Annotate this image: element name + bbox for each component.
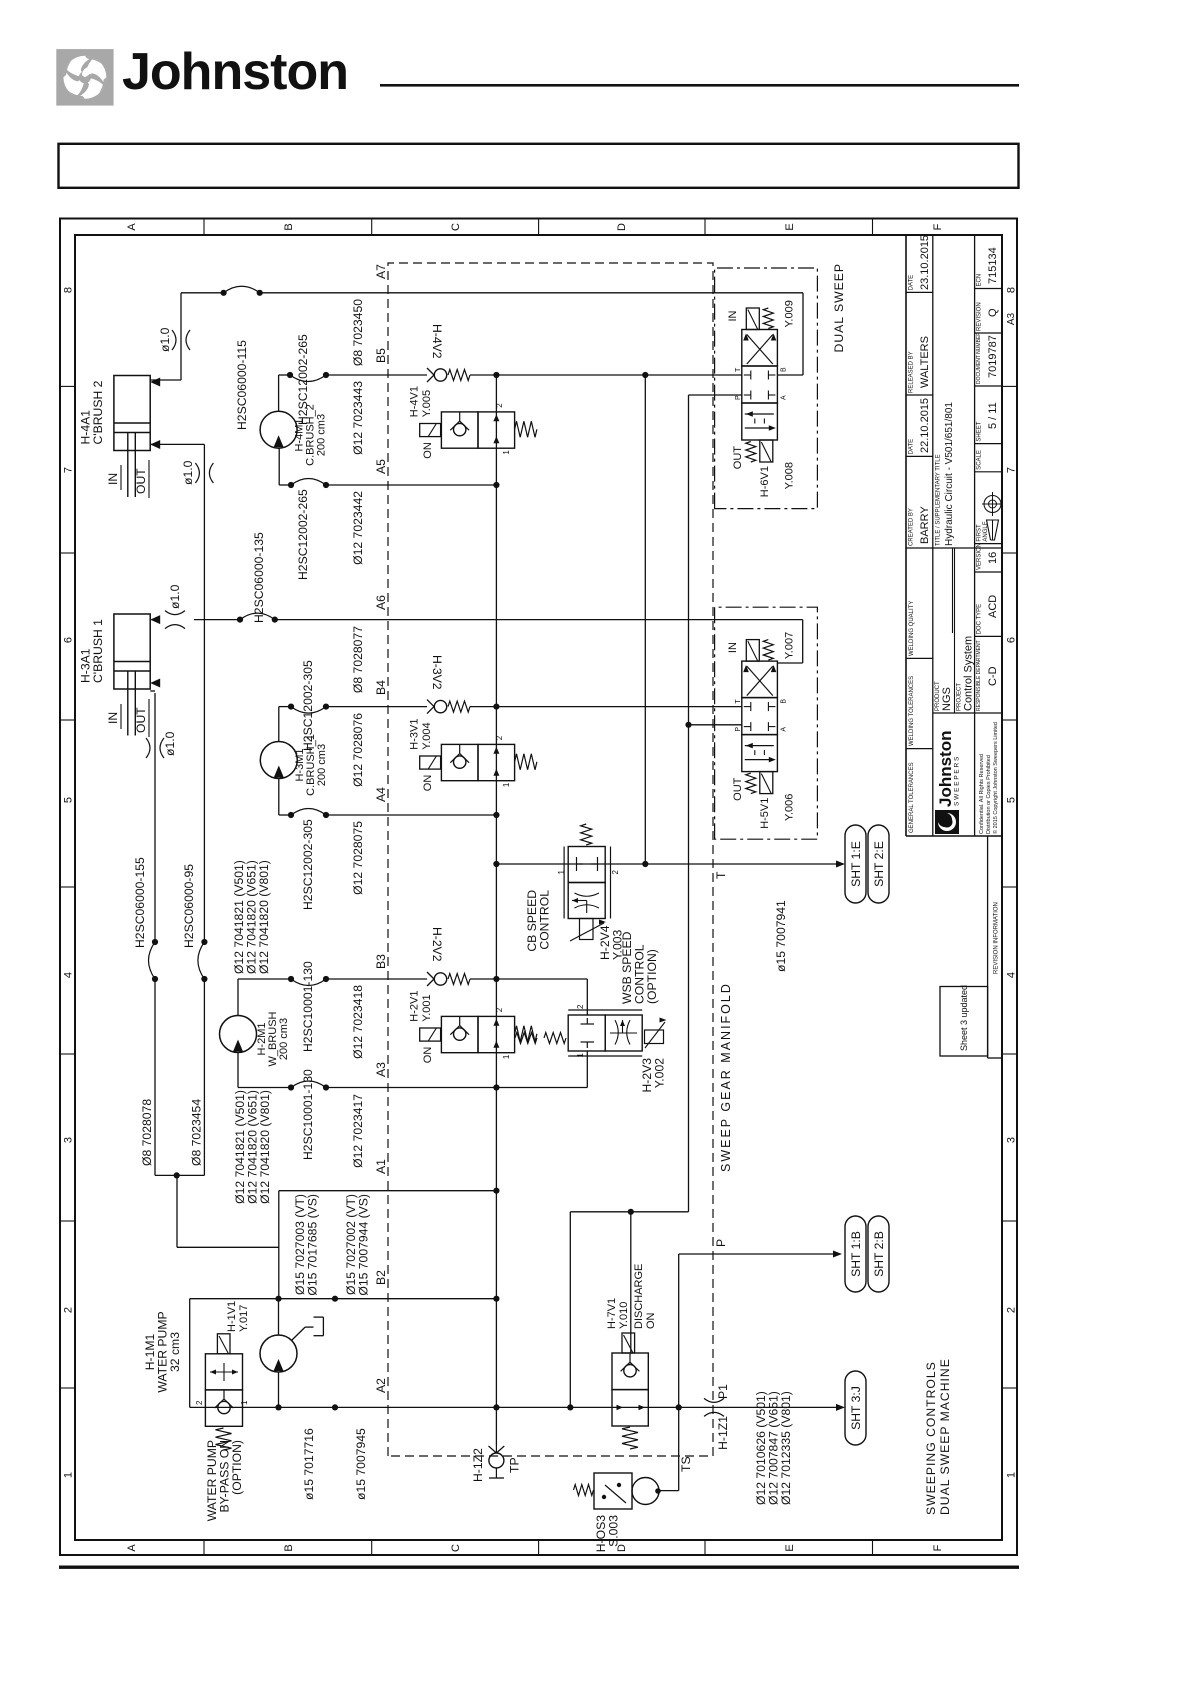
svg-text:Ø8 7028078: Ø8 7028078 bbox=[140, 1099, 154, 1166]
svg-text:DATE: DATE bbox=[909, 439, 915, 455]
svg-text:Ø12 7041820 (V801): Ø12 7041820 (V801) bbox=[257, 860, 271, 974]
svg-text:H-1Z1: H-1Z1 bbox=[716, 1416, 730, 1450]
wire P drop to SHT 1:B bbox=[679, 1253, 835, 1255]
wire A7 rail bbox=[181, 292, 224, 294]
svg-text:CONTROL: CONTROL bbox=[538, 890, 552, 950]
wire rod rail upper (H-3A1) bbox=[154, 979, 156, 1175]
svg-text:H-3V2: H-3V2 bbox=[430, 655, 444, 690]
svg-text:ø15 7007941: ø15 7007941 bbox=[774, 900, 788, 972]
svg-text:C'BRUSH 2: C'BRUSH 2 bbox=[91, 380, 105, 444]
wire H-4M1 ports bbox=[278, 375, 280, 411]
svg-text:B: B bbox=[283, 223, 295, 230]
svg-text:OUT: OUT bbox=[732, 777, 744, 801]
junction dots pump ports and hoses bbox=[275, 1404, 281, 1410]
svg-text:3: 3 bbox=[1006, 1137, 1018, 1143]
svg-text:SHT 3:J: SHT 3:J bbox=[849, 1386, 863, 1430]
svg-text:SHT 1:E: SHT 1:E bbox=[849, 841, 863, 887]
svg-text:REVISION INFORMATION: REVISION INFORMATION bbox=[994, 902, 1000, 974]
first angle projection symbol bbox=[987, 520, 999, 540]
cylinder H-4A1 C'BRUSH 2 bbox=[114, 376, 150, 451]
svg-text:H2SC10001-130: H2SC10001-130 bbox=[301, 961, 315, 1052]
svg-text:H2SC06000-115: H2SC06000-115 bbox=[235, 340, 249, 430]
svg-text:Y.004: Y.004 bbox=[421, 722, 433, 749]
svg-text:Q: Q bbox=[987, 308, 999, 317]
valve H-7V1 discharge bbox=[612, 1390, 648, 1426]
svg-text:TP: TP bbox=[508, 1457, 522, 1473]
svg-text:B: B bbox=[780, 699, 787, 704]
svg-text:A3: A3 bbox=[374, 1062, 388, 1077]
flag SHT 3:J bbox=[845, 1371, 866, 1445]
wire P1 line to SHT 3:J bbox=[679, 1406, 838, 1408]
rotated schematic sheet bbox=[60, 219, 1018, 1556]
svg-text:DUAL SWEEP MACHINE: DUAL SWEEP MACHINE bbox=[938, 1358, 952, 1515]
pump drain line bbox=[292, 1327, 306, 1340]
svg-text:H-3V1: H-3V1 bbox=[409, 719, 421, 750]
spring H-2V2 bbox=[448, 974, 470, 985]
svg-text:Ø8 7023450: Ø8 7023450 bbox=[351, 299, 365, 366]
grid row ticks bbox=[203, 1540, 205, 1555]
svg-text:1: 1 bbox=[63, 1472, 75, 1478]
svg-text:1: 1 bbox=[502, 450, 511, 455]
svg-text:ø1.0: ø1.0 bbox=[163, 731, 177, 756]
svg-text:IN: IN bbox=[727, 310, 739, 321]
svg-text:Y.002: Y.002 bbox=[653, 1058, 667, 1088]
svg-text:5: 5 bbox=[63, 797, 75, 803]
svg-text:Y.009: Y.009 bbox=[783, 300, 795, 327]
svg-text:1: 1 bbox=[240, 1400, 249, 1405]
svg-text:ANGLE: ANGLE bbox=[983, 521, 989, 541]
svg-text:SWEEPING CONTROLS: SWEEPING CONTROLS bbox=[924, 1361, 938, 1515]
svg-text:Y.006: Y.006 bbox=[783, 794, 795, 821]
solenoid H-1V1 bbox=[217, 1334, 230, 1354]
flag SHT 1:B bbox=[845, 1216, 866, 1292]
valve H-2V1 Y.001 bbox=[441, 1016, 478, 1052]
title block outer borders bbox=[905, 235, 907, 836]
wire A6 rail bbox=[152, 619, 157, 621]
svg-text:FIRST: FIRST bbox=[977, 524, 983, 542]
directional valve H-6V1 Y.008/Y.009 bbox=[742, 403, 778, 440]
svg-text:P: P bbox=[714, 1239, 728, 1247]
orifice o1.0 on H-4A1 rod rail bbox=[195, 463, 199, 483]
wire pump ports bbox=[278, 1299, 280, 1335]
dual sweep dash-dot box H-5V1 bbox=[715, 607, 818, 839]
svg-text:P: P bbox=[735, 727, 742, 732]
svg-text:TS: TS bbox=[679, 1456, 693, 1472]
svg-text:S W E E P E R S: S W E E P E R S bbox=[954, 756, 961, 806]
hose break on B4 bbox=[288, 703, 294, 709]
svg-text:H2SC12002-305: H2SC12002-305 bbox=[301, 819, 315, 910]
wire H-3A1 rod port drop bbox=[150, 690, 155, 692]
svg-text:B: B bbox=[780, 367, 787, 372]
header rule bbox=[380, 84, 1019, 87]
svg-text:Hydraulic Circuit - V501/651/8: Hydraulic Circuit - V501/651/801 bbox=[944, 402, 955, 546]
check valve H-3V2 on B4 bbox=[434, 700, 446, 712]
solenoid H-7V1 bbox=[622, 1333, 635, 1353]
svg-text:ACD: ACD bbox=[987, 595, 999, 618]
motor H-3M1 C.BRUSH_1 bbox=[260, 742, 297, 779]
svg-text:H-5V1: H-5V1 bbox=[759, 798, 771, 829]
svg-text:Ø8 7023454: Ø8 7023454 bbox=[190, 1099, 204, 1166]
wire H-3M1 ports bbox=[278, 707, 280, 742]
svg-text:H-6V1: H-6V1 bbox=[759, 466, 771, 497]
svg-text:Johnston: Johnston bbox=[122, 43, 348, 101]
svg-text:4: 4 bbox=[63, 972, 75, 978]
svg-text:ON: ON bbox=[422, 775, 434, 792]
svg-text:WELDING QUALITY: WELDING QUALITY bbox=[909, 601, 915, 656]
drawing frame inner border bbox=[75, 235, 1002, 1540]
wire H-4A1 rod port drop bbox=[150, 443, 204, 445]
sheet 3 updated box bbox=[940, 987, 988, 1057]
wire B5-T link bbox=[644, 375, 646, 864]
svg-text:T: T bbox=[714, 871, 728, 879]
hose break H2SC06000-115 on A7 bbox=[221, 290, 227, 296]
wire H-OS3 to TS line bbox=[659, 1490, 679, 1492]
wire H-4A1 cap port to A7 bbox=[150, 379, 181, 381]
svg-text:S.003: S.003 bbox=[607, 1515, 621, 1547]
title block product project cells bbox=[933, 712, 1002, 714]
tank symbol bbox=[314, 1335, 324, 1337]
wire H-7V1 port to discharge bbox=[630, 1212, 632, 1353]
svg-text:NGS: NGS bbox=[941, 687, 953, 711]
svg-text:ø15 7017716: ø15 7017716 bbox=[302, 1428, 316, 1500]
svg-text:200 cm3: 200 cm3 bbox=[316, 744, 328, 786]
svg-text:Control System: Control System bbox=[963, 636, 975, 711]
svg-text:7: 7 bbox=[1006, 467, 1018, 473]
orifice H-1Z1 bbox=[704, 1412, 724, 1416]
variable restrictor H-2V4 bbox=[580, 919, 594, 940]
svg-text:7019787: 7019787 bbox=[987, 335, 999, 378]
svg-text:Y.010: Y.010 bbox=[618, 1302, 630, 1329]
svg-text:H-4V2: H-4V2 bbox=[430, 324, 444, 359]
svg-text:Sheet 3 updated: Sheet 3 updated bbox=[959, 985, 969, 1051]
svg-text:2: 2 bbox=[63, 1307, 75, 1313]
svg-text:B3: B3 bbox=[374, 954, 388, 969]
svg-text:DOCUMENT NUMBER: DOCUMENT NUMBER bbox=[976, 332, 982, 384]
svg-text:T: T bbox=[735, 367, 742, 372]
svg-text:IN: IN bbox=[727, 642, 739, 653]
svg-text:B2: B2 bbox=[374, 1270, 388, 1285]
wire B5 rail bbox=[279, 374, 290, 376]
svg-text:SWEEP GEAR MANIFOLD: SWEEP GEAR MANIFOLD bbox=[719, 982, 733, 1172]
orifice o1.0 on H-3A1 rod rail bbox=[146, 738, 150, 758]
svg-text:Ø12 7028076: Ø12 7028076 bbox=[351, 713, 365, 787]
wire A6 to H-5V1 B loop bbox=[802, 620, 804, 663]
svg-text:A4: A4 bbox=[374, 787, 388, 802]
dual sweep dash-dot box H-6V1 bbox=[715, 268, 818, 509]
svg-text:Y.017: Y.017 bbox=[238, 1305, 250, 1332]
svg-text:DOC TYPE: DOC TYPE bbox=[977, 604, 983, 635]
valve H-1V1 water pump bypass bbox=[205, 1390, 242, 1426]
svg-text:2: 2 bbox=[576, 1004, 585, 1009]
pump H-1M1 WATER PUMP bbox=[260, 1335, 297, 1372]
wire H-5V1 P stub bbox=[689, 724, 742, 726]
svg-text:H-7V1: H-7V1 bbox=[606, 1298, 618, 1329]
motor H-2M1 W_BRUSH bbox=[220, 1016, 257, 1053]
svg-text:1: 1 bbox=[557, 869, 566, 874]
motor H-4M1 C.BRUSH_2 bbox=[260, 411, 297, 448]
svg-text:2: 2 bbox=[611, 869, 620, 874]
wire B4 rail bbox=[279, 706, 291, 708]
svg-text:5: 5 bbox=[1006, 797, 1018, 803]
svg-text:H2SC10001-130: H2SC10001-130 bbox=[301, 1069, 315, 1160]
svg-text:B4: B4 bbox=[374, 680, 388, 695]
svg-text:OUT: OUT bbox=[134, 707, 148, 733]
svg-text:ON: ON bbox=[422, 442, 434, 459]
svg-text:SHT 1:B: SHT 1:B bbox=[849, 1231, 863, 1277]
svg-text:E: E bbox=[784, 223, 796, 230]
svg-text:H2SC06000-135: H2SC06000-135 bbox=[252, 532, 266, 623]
svg-text:RESPONSIBLE DEPARTMENT: RESPONSIBLE DEPARTMENT bbox=[976, 640, 982, 711]
svg-text:8: 8 bbox=[63, 287, 75, 293]
svg-text:Johnston: Johnston bbox=[936, 731, 955, 808]
svg-text:Ø15 7007944 (VS): Ø15 7007944 (VS) bbox=[357, 1194, 371, 1296]
check valve H-4V2 on B5 bbox=[434, 369, 446, 381]
svg-text:TITLE / SUPPLEMENTARY TITLE: TITLE / SUPPLEMENTARY TITLE bbox=[936, 454, 942, 546]
svg-text:D: D bbox=[616, 223, 628, 231]
spring H-2V3 above bbox=[544, 1033, 566, 1044]
svg-text:ECN: ECN bbox=[977, 274, 983, 287]
svg-text:OUT: OUT bbox=[732, 446, 744, 470]
svg-text:P1: P1 bbox=[716, 1384, 730, 1399]
empty title strip box bbox=[59, 144, 1019, 188]
svg-text:CREATED BY: CREATED BY bbox=[909, 508, 915, 546]
svg-text:WALTERS: WALTERS bbox=[919, 336, 931, 388]
svg-text:ø1.0: ø1.0 bbox=[168, 584, 182, 609]
svg-text:DISCHARGE: DISCHARGE bbox=[633, 1264, 645, 1329]
title block tolerance cells bbox=[906, 748, 933, 750]
wire P ports line bbox=[688, 395, 690, 1212]
wire T line vertical (CB valve to SHT 1:E) bbox=[496, 863, 842, 865]
svg-text:A1: A1 bbox=[374, 1159, 388, 1174]
test point H-1Z2 bbox=[495, 1445, 497, 1453]
flag SHT 1:E bbox=[845, 825, 866, 903]
svg-text:2: 2 bbox=[495, 735, 504, 740]
valve H-2V4 CB speed control bbox=[568, 847, 605, 883]
revision information strip bbox=[987, 836, 989, 1058]
svg-text:DUAL SWEEP: DUAL SWEEP bbox=[832, 263, 846, 352]
variable restrictor H-2V3 bbox=[645, 1030, 664, 1044]
Johnston logo bbox=[56, 49, 113, 106]
svg-text:F: F bbox=[932, 1544, 944, 1551]
svg-text:A5: A5 bbox=[374, 459, 388, 474]
svg-text:Ø12 7023417: Ø12 7023417 bbox=[351, 1094, 365, 1168]
svg-text:SHEET: SHEET bbox=[977, 421, 983, 441]
svg-text:Y.007: Y.007 bbox=[783, 632, 795, 659]
svg-text:Ø12 7023418: Ø12 7023418 bbox=[351, 985, 365, 1059]
svg-text:C: C bbox=[450, 1544, 462, 1552]
spring H-7V1 bbox=[622, 1427, 638, 1449]
svg-text:B: B bbox=[283, 1544, 295, 1551]
svg-text:ON: ON bbox=[422, 1047, 434, 1064]
orifice o1.0 on A6 bbox=[165, 625, 185, 629]
svg-text:Y.008: Y.008 bbox=[783, 462, 795, 489]
wire cylinder rod rails connector bbox=[155, 1174, 204, 1176]
svg-text:ON: ON bbox=[645, 1312, 657, 1329]
title block johnston logo cell bbox=[935, 731, 961, 835]
spring H-1V1 bbox=[216, 1428, 232, 1450]
svg-text:ø15 7007945: ø15 7007945 bbox=[354, 1428, 368, 1500]
svg-text:1: 1 bbox=[576, 1052, 585, 1057]
cylinder H-3A1 C'BRUSH 1 bbox=[114, 614, 150, 689]
svg-text:REVISION: REVISION bbox=[977, 302, 983, 331]
svg-text:H-1Z2: H-1Z2 bbox=[471, 1448, 485, 1482]
svg-text:H-4V1: H-4V1 bbox=[409, 386, 421, 417]
pressure switch H-OS3 S.003 bbox=[594, 1473, 632, 1509]
svg-text:H-2V1: H-2V1 bbox=[409, 991, 421, 1022]
svg-text:Ø12 7028075: Ø12 7028075 bbox=[351, 821, 365, 895]
svg-text:H2SC06000-95: H2SC06000-95 bbox=[182, 864, 196, 948]
svg-text:A3: A3 bbox=[1006, 312, 1017, 325]
svg-text:C'BRUSH 1: C'BRUSH 1 bbox=[91, 619, 105, 683]
svg-text:3: 3 bbox=[63, 1137, 75, 1143]
svg-text:H2SC12002-265: H2SC12002-265 bbox=[296, 489, 310, 580]
wire H-6V1 P stub bbox=[689, 394, 742, 396]
svg-text:16: 16 bbox=[987, 552, 999, 564]
svg-text:IN: IN bbox=[106, 712, 120, 724]
arrow into SHT 3:J bbox=[836, 1404, 845, 1411]
svg-text:2: 2 bbox=[495, 403, 504, 408]
valve H-3V1 Y.004 bbox=[441, 744, 478, 780]
svg-text:H-2V2: H-2V2 bbox=[430, 927, 444, 962]
wire H-2V3 port stubs bbox=[586, 1051, 588, 1088]
hose break H2SC10001-130 on A3 bbox=[288, 1084, 294, 1090]
svg-text:(OPTION): (OPTION) bbox=[645, 949, 659, 1004]
svg-text:A: A bbox=[126, 1544, 138, 1552]
svg-text:6: 6 bbox=[1006, 637, 1018, 643]
svg-text:22.10.2015: 22.10.2015 bbox=[919, 398, 931, 453]
wire TS-P horizontal line bbox=[678, 1254, 680, 1491]
flag SHT 2:B bbox=[868, 1216, 889, 1292]
svg-text:(OPTION): (OPTION) bbox=[230, 1440, 244, 1495]
wire B3 rail bbox=[238, 978, 291, 980]
svg-text:DATE: DATE bbox=[909, 275, 915, 291]
valve H-2V3 WSB speed control bbox=[568, 1015, 605, 1051]
svg-text:BARRY: BARRY bbox=[919, 506, 931, 544]
svg-text:RELEASED BY: RELEASED BY bbox=[909, 351, 915, 393]
svg-text:Y.001: Y.001 bbox=[421, 994, 433, 1021]
wire A4 rail bbox=[279, 814, 291, 816]
grid column ticks top bbox=[60, 1387, 75, 1389]
spring H-2V1 below bbox=[515, 1033, 537, 1044]
svg-text:A2: A2 bbox=[374, 1378, 388, 1393]
svg-text:32 cm3: 32 cm3 bbox=[168, 1332, 182, 1372]
svg-text:A: A bbox=[780, 727, 787, 732]
wire A2 rail bbox=[190, 1406, 679, 1408]
svg-text:Confidential. All Rights Reser: Confidential. All Rights Reserved bbox=[979, 754, 985, 834]
svg-text:4: 4 bbox=[1006, 972, 1018, 978]
svg-text:Distribution or Copies Prohibi: Distribution or Copies Prohibited bbox=[986, 755, 992, 834]
svg-text:VERSION: VERSION bbox=[977, 543, 983, 570]
svg-text:715134: 715134 bbox=[987, 247, 999, 284]
hose break on A4 bbox=[288, 812, 294, 818]
svg-text:Ø15 7017685 (VS): Ø15 7017685 (VS) bbox=[306, 1194, 320, 1296]
svg-text:1: 1 bbox=[502, 1054, 511, 1059]
hose break H2SC06000-135 on A6 bbox=[237, 616, 243, 622]
svg-text:T: T bbox=[735, 699, 742, 704]
spring H-3V2 bbox=[448, 701, 470, 712]
svg-text:ø1.0: ø1.0 bbox=[181, 460, 195, 485]
svg-text:WELDING TOLERANCES: WELDING TOLERANCES bbox=[909, 676, 915, 746]
wire A5 rail bbox=[279, 484, 291, 486]
hose break on A5 bbox=[288, 482, 294, 488]
svg-text:Ø12 7023443: Ø12 7023443 bbox=[351, 381, 365, 455]
svg-text:Ø12 7012335 (V801): Ø12 7012335 (V801) bbox=[779, 1391, 793, 1505]
wire A1 bbox=[279, 1190, 497, 1192]
wire H-2M1 ports bbox=[237, 979, 239, 1016]
hose break H2SC06000-155 bbox=[152, 976, 158, 982]
wire pump loop top bbox=[189, 1299, 191, 1408]
svg-text:H-1V1: H-1V1 bbox=[226, 1301, 238, 1332]
svg-text:P: P bbox=[735, 395, 742, 400]
svg-text:A7: A7 bbox=[374, 264, 388, 279]
wire main rail bbox=[495, 375, 497, 1445]
wire A7 to H-6V1 B loop bbox=[802, 293, 804, 375]
wire discharge vertical bbox=[570, 1211, 688, 1213]
svg-text:2: 2 bbox=[1006, 1307, 1018, 1313]
flag SHT 2:E bbox=[868, 825, 889, 903]
svg-text:OUT: OUT bbox=[134, 468, 148, 494]
wire discharge branch from A2 bbox=[569, 1212, 571, 1408]
footer rule bbox=[59, 1566, 1019, 1569]
svg-text:5 / 11: 5 / 11 bbox=[987, 402, 999, 429]
wire B2 rail bbox=[190, 1298, 497, 1300]
spring H-4V2 bbox=[448, 370, 470, 381]
svg-text:200 cm3: 200 cm3 bbox=[316, 414, 328, 456]
svg-text:A: A bbox=[780, 395, 787, 400]
wire rod rail lower (H-4A1) bbox=[203, 979, 205, 1175]
svg-text:8: 8 bbox=[1006, 287, 1018, 293]
valve H-4V1 Y.005 bbox=[441, 412, 478, 448]
svg-text:SHT 2:B: SHT 2:B bbox=[872, 1231, 886, 1277]
svg-text:2: 2 bbox=[195, 1400, 204, 1405]
svg-text:GENERAL TOLERANCES: GENERAL TOLERANCES bbox=[909, 762, 915, 833]
junction dots on main rail bbox=[493, 1404, 499, 1410]
svg-text:200 cm3: 200 cm3 bbox=[278, 1018, 290, 1060]
drawing frame outer border bbox=[60, 219, 1017, 1556]
svg-text:E: E bbox=[784, 1544, 796, 1551]
orifice o1.0 on H-4A1 cap wire bbox=[172, 330, 176, 350]
hose break H2SC10001-130 on B3 bbox=[288, 976, 294, 982]
svg-text:7: 7 bbox=[63, 467, 75, 473]
directional valve H-5V1 Y.006/Y.007 bbox=[742, 735, 778, 772]
svg-text:Ø12 7041820 (V801): Ø12 7041820 (V801) bbox=[258, 1090, 272, 1204]
svg-text:6: 6 bbox=[63, 637, 75, 643]
svg-text:A6: A6 bbox=[374, 595, 388, 610]
svg-text:1: 1 bbox=[1006, 1472, 1018, 1478]
svg-text:C-D: C-D bbox=[987, 666, 999, 686]
title block band C cells bbox=[975, 635, 1002, 637]
spring H-2V4 bbox=[581, 824, 592, 845]
svg-text:SHT 2:E: SHT 2:E bbox=[872, 841, 886, 887]
svg-text:A: A bbox=[126, 223, 138, 231]
svg-text:Y.005: Y.005 bbox=[421, 390, 433, 417]
title block band A cells bbox=[906, 547, 1002, 549]
svg-text:SCALE: SCALE bbox=[977, 450, 983, 470]
svg-text:H2SC06000-155: H2SC06000-155 bbox=[133, 857, 147, 948]
svg-text:C: C bbox=[450, 223, 462, 231]
svg-text:1: 1 bbox=[502, 782, 511, 787]
svg-text:Ø12 7023442: Ø12 7023442 bbox=[351, 491, 365, 565]
svg-text:Ø8 7028077: Ø8 7028077 bbox=[351, 626, 365, 693]
spring H-OS3 bbox=[574, 1485, 594, 1496]
svg-text:F: F bbox=[932, 223, 944, 230]
svg-text:© 2015 Copyright Johnston Swee: © 2015 Copyright Johnston Sweepers Limit… bbox=[992, 722, 999, 834]
check valve H-2V2 on B3 bbox=[434, 973, 446, 985]
svg-text:ø1.0: ø1.0 bbox=[158, 327, 172, 352]
sweep gear manifold dashed boundary bbox=[388, 263, 713, 1456]
svg-text:IN: IN bbox=[106, 473, 120, 485]
svg-text:B5: B5 bbox=[374, 348, 388, 363]
